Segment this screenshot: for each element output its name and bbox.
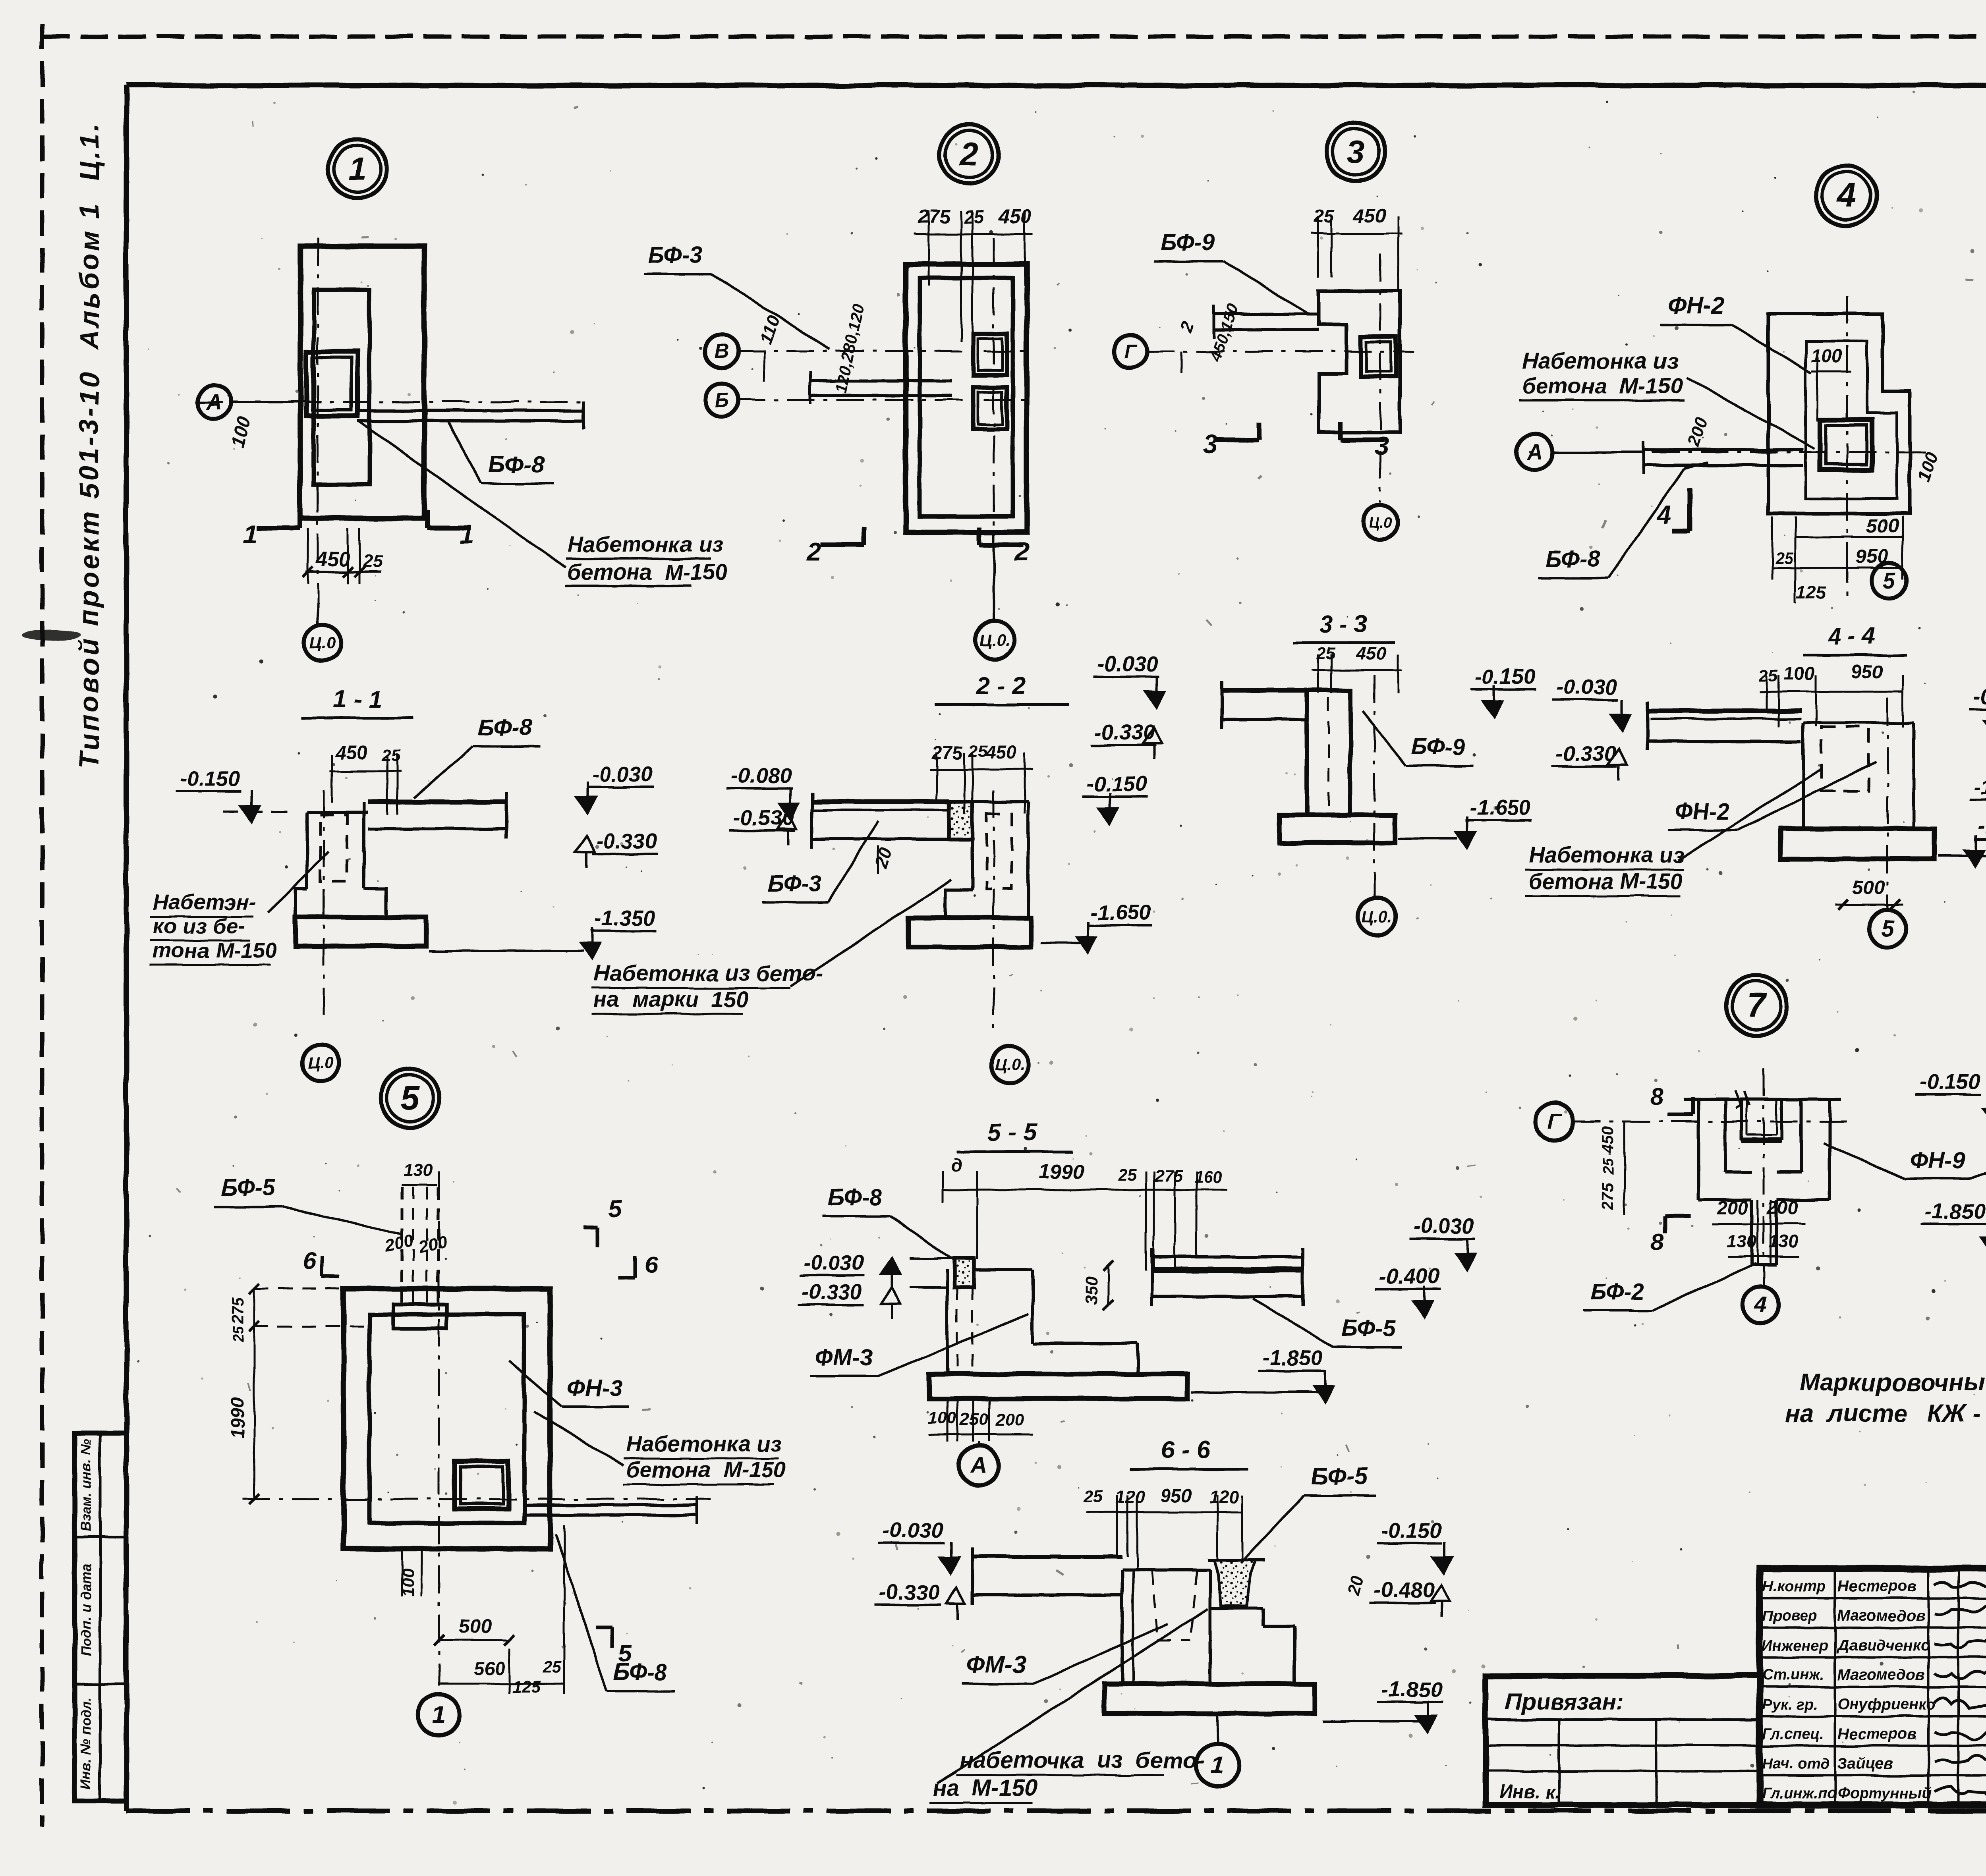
svg-text:3: 3 bbox=[1204, 430, 1218, 458]
svg-text:Ц.0.: Ц.0. bbox=[980, 631, 1010, 649]
section 4-4 beam bbox=[1648, 708, 1801, 713]
svg-text:БФ-8: БФ-8 bbox=[1546, 546, 1600, 572]
svg-text:3: 3 bbox=[1374, 432, 1389, 460]
detail 4 axis vertical bbox=[1846, 296, 1848, 596]
section 6-6 pier dashed cup bbox=[1152, 1571, 1158, 1640]
svg-text:Магомедов: Магомедов bbox=[1837, 1607, 1925, 1624]
svg-text:25: 25 bbox=[362, 551, 383, 571]
svg-text:2: 2 bbox=[1014, 537, 1029, 566]
section 6-6 pier bbox=[1121, 1570, 1124, 1684]
title block signature grid bbox=[1760, 1597, 1986, 1599]
detail 7 left dims bbox=[1624, 1121, 1626, 1215]
section 6-6 footing bbox=[1104, 1684, 1315, 1714]
detail 2 axis vertical bbox=[993, 238, 995, 622]
detail 7 axis vertical bbox=[1763, 1068, 1765, 1287]
section 2-2 wall bbox=[971, 802, 974, 890]
axis bubble Ts0 section 3-3 bbox=[1358, 898, 1396, 935]
detail 2 axis B row bbox=[738, 399, 1033, 401]
svg-text:200: 200 bbox=[383, 1231, 415, 1256]
svg-text:Подп. и дата: Подп. и дата bbox=[78, 1564, 94, 1656]
svg-text:на М-150: на М-150 bbox=[933, 1775, 1037, 1801]
svg-text:БФ-5: БФ-5 bbox=[221, 1175, 276, 1200]
svg-text:1: 1 bbox=[348, 151, 367, 187]
svg-text:-1.650: -1.650 bbox=[1978, 814, 1986, 838]
svg-text:БФ-8: БФ-8 bbox=[828, 1185, 882, 1210]
detail 2 bubble bbox=[940, 125, 999, 183]
detail 3 outline bbox=[1319, 291, 1400, 432]
svg-text:120: 120 bbox=[1115, 1487, 1145, 1507]
svg-text:25: 25 bbox=[1600, 1158, 1617, 1175]
svg-text:160: 160 bbox=[1194, 1168, 1223, 1187]
svg-text:20: 20 bbox=[1345, 1573, 1368, 1597]
section cut T1 bbox=[427, 526, 471, 531]
svg-text:на марки 150: на марки 150 bbox=[594, 986, 749, 1011]
detail 2 beam BF-3 bbox=[810, 379, 951, 382]
svg-text:450: 450 bbox=[1355, 643, 1387, 664]
svg-text:-0.030: -0.030 bbox=[1556, 675, 1617, 699]
svg-text:-1.850: -1.850 bbox=[1924, 1199, 1985, 1223]
detail 5 axis vertical bbox=[438, 1172, 440, 1686]
svg-text:Инженер: Инженер bbox=[1762, 1637, 1828, 1654]
svg-text:В: В bbox=[715, 340, 729, 362]
svg-text:Набетонка из бето-: Набетонка из бето- bbox=[594, 961, 823, 986]
svg-text:Набетонка из: Набетонка из bbox=[567, 532, 723, 557]
svg-text:Инв. к.: Инв. к. bbox=[1499, 1781, 1561, 1802]
svg-text:100: 100 bbox=[1811, 345, 1842, 366]
svg-text:Ц.0.: Ц.0. bbox=[995, 1056, 1024, 1074]
svg-text:БФ-9: БФ-9 bbox=[1411, 734, 1465, 760]
axis bubble A section 5-5 bbox=[959, 1446, 999, 1485]
section 5-5 pier dashed bbox=[956, 1287, 958, 1372]
detail 5 left dims bbox=[253, 1289, 255, 1499]
axis bubble Ts0 detail 1 bbox=[317, 604, 319, 625]
svg-text:Набетонка из: Набетонка из bbox=[1522, 348, 1678, 373]
sheet outer dashed border top bbox=[42, 35, 1986, 39]
svg-text:Гл.спец.: Гл.спец. bbox=[1762, 1726, 1824, 1743]
svg-text:5 - 5: 5 - 5 bbox=[987, 1119, 1037, 1146]
svg-text:500: 500 bbox=[459, 1616, 491, 1637]
axis bubble B bbox=[705, 383, 738, 417]
svg-text:4 - 4: 4 - 4 bbox=[1828, 623, 1876, 649]
svg-text:275: 275 bbox=[1154, 1167, 1183, 1186]
detail 4 inner outline bbox=[1806, 341, 1897, 499]
axis bubble V bbox=[705, 334, 738, 368]
detail 4 outline bbox=[1768, 314, 1910, 513]
detail 1 outline bbox=[300, 246, 424, 518]
svg-text:125: 125 bbox=[512, 1677, 541, 1697]
axis bubble Ts0 detail 2 bbox=[993, 534, 995, 620]
axis bubble Ts0 detail 3 bbox=[1363, 505, 1398, 540]
section 1-1 beam bbox=[368, 799, 506, 804]
axis bubble G detail 7 bbox=[1535, 1102, 1573, 1141]
section 3-3 pier bbox=[1307, 690, 1350, 815]
svg-text:275: 275 bbox=[1599, 1182, 1617, 1210]
section 3-3 footing bbox=[1280, 815, 1395, 843]
title block annex bbox=[1486, 1676, 1760, 1805]
detail 7 outline bbox=[1697, 1099, 1700, 1200]
detail 5 inner 1 bbox=[369, 1314, 524, 1523]
svg-text:100: 100 bbox=[1913, 450, 1942, 484]
svg-text:4: 4 bbox=[1754, 1292, 1767, 1317]
margin stamp table bbox=[75, 1434, 126, 1801]
svg-text:-1.650: -1.650 bbox=[1090, 901, 1151, 924]
detail 4 axis horizontal bbox=[1553, 452, 1934, 454]
grid bubble 5 section 4-4 bbox=[1869, 910, 1906, 947]
section 4-4 footing bbox=[1781, 829, 1934, 859]
svg-text:БФ-8: БФ-8 bbox=[613, 1659, 668, 1685]
svg-text:ФМ-3: ФМ-3 bbox=[966, 1651, 1026, 1678]
svg-text:200: 200 bbox=[1717, 1197, 1748, 1218]
svg-text:Набетонка из: Набетонка из bbox=[1528, 842, 1685, 867]
svg-text:-0.030: -0.030 bbox=[803, 1251, 864, 1275]
svg-text:набеточка из бето-: набеточка из бето- bbox=[959, 1747, 1205, 1773]
svg-text:-0.150: -0.150 bbox=[1973, 685, 1986, 708]
svg-text:450: 450 bbox=[1353, 205, 1386, 227]
section cut 8 bottom bbox=[1665, 1214, 1690, 1218]
section 3-3 axis bbox=[1374, 675, 1376, 897]
svg-text:1: 1 bbox=[432, 1701, 446, 1729]
detail 4 dims bottom bbox=[1795, 536, 1903, 538]
svg-text:Инв. № подл.: Инв. № подл. bbox=[78, 1697, 94, 1790]
svg-text:950: 950 bbox=[1161, 1485, 1192, 1506]
svg-text:2: 2 bbox=[1177, 319, 1198, 335]
detail 5 column dashed bbox=[401, 1187, 404, 1307]
section 1-1 wall dashed pocket bbox=[320, 815, 347, 882]
svg-text:-1.350: -1.350 bbox=[595, 906, 655, 930]
section 2-2 beam bbox=[812, 799, 949, 804]
svg-text:Ц.0.: Ц.0. bbox=[1362, 907, 1392, 926]
svg-text:1: 1 bbox=[1211, 1752, 1224, 1779]
svg-text:-0.030: -0.030 bbox=[1097, 652, 1158, 676]
svg-text:450: 450 bbox=[985, 741, 1016, 762]
svg-text:200: 200 bbox=[416, 1232, 448, 1257]
svg-text:25: 25 bbox=[1118, 1166, 1137, 1184]
svg-text:БФ-8: БФ-8 bbox=[478, 715, 533, 741]
svg-text:Магомедов: Магомедов bbox=[1837, 1666, 1925, 1683]
section 4-4 axis bbox=[1887, 698, 1889, 909]
svg-text:Взам. инв. №: Взам. инв. № bbox=[78, 1439, 94, 1531]
section 5-5 dim 350 bbox=[1107, 1266, 1109, 1305]
section 2-2 grout pocket bbox=[949, 802, 972, 839]
svg-text:-0.330: -0.330 bbox=[1555, 742, 1616, 766]
svg-text:200: 200 bbox=[995, 1411, 1024, 1430]
svg-text:5: 5 bbox=[1881, 915, 1894, 941]
svg-text:ФМ-3: ФМ-3 bbox=[815, 1345, 873, 1370]
svg-text:450: 450 bbox=[999, 206, 1032, 228]
svg-text:275: 275 bbox=[918, 206, 951, 228]
detail 2 inner outline bbox=[920, 278, 1013, 516]
svg-text:1: 1 bbox=[243, 519, 258, 549]
svg-text:120: 120 bbox=[1209, 1487, 1239, 1507]
grid bubble 4 detail 7 bbox=[1743, 1287, 1779, 1323]
section 2-2 axis bbox=[993, 790, 995, 1033]
svg-text:7: 7 bbox=[1747, 986, 1768, 1025]
svg-text:6: 6 bbox=[645, 1251, 658, 1278]
svg-text:Ц.0: Ц.0 bbox=[1368, 514, 1392, 531]
detail 7 inner verticals bbox=[1723, 1099, 1727, 1172]
svg-text:Нестеров: Нестеров bbox=[1837, 1578, 1916, 1595]
svg-text:8: 8 bbox=[1651, 1229, 1664, 1255]
section 2-2 steps bbox=[945, 890, 972, 918]
section 1-1 axis bbox=[323, 790, 325, 1017]
svg-text:А: А bbox=[1526, 440, 1542, 464]
svg-text:Маркировочный план . план: Маркировочный план . план фундаментов см… bbox=[1799, 1369, 1986, 1396]
detail 7 axis horizontal bbox=[1573, 1121, 1847, 1123]
grid bubble 1 section 6-6 bbox=[1196, 1744, 1239, 1787]
svg-text:тона М-150: тона М-150 bbox=[153, 939, 276, 963]
svg-text:5: 5 bbox=[400, 1079, 420, 1117]
svg-text:25: 25 bbox=[1758, 666, 1778, 685]
svg-text:450: 450 bbox=[335, 742, 368, 764]
svg-text:Ц.0: Ц.0 bbox=[310, 633, 335, 652]
section 3-3 beam bbox=[1222, 688, 1307, 693]
svg-text:100: 100 bbox=[1784, 663, 1815, 684]
svg-text:25: 25 bbox=[1083, 1487, 1103, 1506]
svg-text:бетона М-150: бетона М-150 bbox=[1528, 869, 1683, 894]
drawing frame bbox=[126, 83, 1986, 88]
detail 4 bubble bbox=[1816, 165, 1876, 226]
svg-text:450,150: 450,150 bbox=[1206, 302, 1243, 364]
detail 3 beam BF-9 bbox=[1213, 312, 1319, 315]
svg-text:5: 5 bbox=[1883, 568, 1895, 593]
detail 7 break mark bbox=[1735, 1090, 1741, 1108]
svg-text:А: А bbox=[970, 1452, 987, 1478]
svg-text:125: 125 bbox=[1796, 583, 1826, 603]
section 5-5 beam right bbox=[1152, 1255, 1303, 1258]
svg-text:2: 2 bbox=[806, 537, 821, 566]
svg-text:Набетэн-: Набетэн- bbox=[153, 890, 256, 914]
svg-text:-1.850: -1.850 bbox=[1262, 1346, 1323, 1370]
svg-text:100: 100 bbox=[226, 414, 255, 450]
section 2-2 wall dashed bbox=[987, 814, 1012, 889]
section 5-5 pier bbox=[946, 1270, 949, 1374]
svg-text:200: 200 bbox=[1683, 415, 1712, 450]
detail 2 axis V row bbox=[738, 350, 1033, 352]
svg-text:2 - 2: 2 - 2 bbox=[976, 672, 1026, 700]
detail 1 bubble bbox=[328, 139, 387, 198]
svg-text:Г: Г bbox=[1547, 1109, 1562, 1134]
svg-text:Онуфриенко: Онуфриенко bbox=[1837, 1696, 1936, 1713]
svg-text:БФ-3: БФ-3 bbox=[767, 871, 821, 897]
detail 2 column lower bbox=[973, 387, 1007, 429]
svg-text:3 - 3: 3 - 3 bbox=[1319, 611, 1367, 637]
svg-text:25: 25 bbox=[968, 742, 988, 761]
detail 5 dim 500 bbox=[439, 1639, 509, 1641]
svg-text:Ст.инж.: Ст.инж. bbox=[1762, 1667, 1824, 1683]
svg-text:130: 130 bbox=[1727, 1231, 1756, 1252]
svg-text:бетона М-150: бетона М-150 bbox=[626, 1457, 786, 1482]
detail 1 axis vertical bbox=[317, 238, 319, 604]
svg-text:25: 25 bbox=[1775, 549, 1794, 567]
svg-text:бетона М-150: бетона М-150 bbox=[1522, 373, 1683, 398]
svg-text:350: 350 bbox=[1082, 1276, 1101, 1305]
detail 3 axis horizontal bbox=[1147, 351, 1414, 353]
svg-text:Зайцев: Зайцев bbox=[1837, 1755, 1893, 1772]
detail 5 beam right bbox=[524, 1504, 697, 1507]
svg-text:Г: Г bbox=[1124, 340, 1138, 363]
svg-text:на листе КЖ - 4.: на листе КЖ - 4. bbox=[1785, 1400, 1986, 1427]
svg-text:-0.080: -0.080 bbox=[731, 764, 792, 788]
svg-text:1990: 1990 bbox=[1039, 1160, 1084, 1183]
svg-text:1990: 1990 bbox=[227, 1397, 248, 1439]
grid bubble 1 detail 5 bbox=[418, 1694, 460, 1735]
section 4-4 pier dashed bbox=[1821, 727, 1869, 791]
svg-text:ФН-3: ФН-3 bbox=[568, 1375, 623, 1401]
svg-text:130: 130 bbox=[1768, 1231, 1798, 1252]
svg-text:ко из бе-: ко из бе- bbox=[153, 914, 245, 938]
section 6-6 right block bbox=[1210, 1607, 1263, 1610]
svg-text:бетона М-150: бетона М-150 bbox=[567, 560, 728, 585]
svg-text:100: 100 bbox=[928, 1409, 956, 1428]
section 4-4 pier bbox=[1802, 723, 1805, 829]
axis bubble A detail 4 bbox=[1517, 434, 1552, 470]
svg-text:-0.330: -0.330 bbox=[802, 1280, 862, 1304]
svg-text:-0.030: -0.030 bbox=[1413, 1214, 1474, 1238]
detail 7 U channel bbox=[1740, 1099, 1743, 1141]
svg-text:25: 25 bbox=[1316, 644, 1336, 663]
svg-text:БФ-2: БФ-2 bbox=[1590, 1279, 1644, 1305]
svg-text:Нестеров: Нестеров bbox=[1837, 1725, 1916, 1743]
section 6-6 funnel BF-5 bbox=[1214, 1560, 1256, 1606]
svg-text:450: 450 bbox=[315, 548, 350, 570]
svg-text:БФ-5: БФ-5 bbox=[1341, 1316, 1396, 1341]
title block annex rows bbox=[1486, 1718, 1760, 1721]
svg-text:-0.150: -0.150 bbox=[1086, 772, 1147, 796]
section cut T2 bbox=[979, 542, 1023, 547]
axis bubble Ts0 section 1-1 bbox=[303, 1044, 339, 1081]
svg-text:ФН-9: ФН-9 bbox=[1910, 1148, 1965, 1173]
svg-text:1 - 1: 1 - 1 bbox=[333, 686, 382, 713]
svg-text:БФ-5: БФ-5 bbox=[1311, 1463, 1368, 1490]
svg-text:-0.150: -0.150 bbox=[1474, 665, 1535, 689]
svg-text:6 - 6: 6 - 6 bbox=[1161, 1436, 1211, 1464]
grid bubble 5 detail 4 bbox=[1872, 563, 1907, 598]
svg-text:Набетонка из: Набетонка из bbox=[626, 1431, 782, 1456]
detail 1 column FM bbox=[306, 351, 357, 416]
svg-text:Привязан:: Привязан: bbox=[1505, 1689, 1623, 1715]
section 5-5 beam end box bbox=[954, 1258, 974, 1287]
svg-text:500: 500 bbox=[1853, 877, 1885, 899]
section 6-6 beam bbox=[972, 1555, 1122, 1559]
svg-text:-1.650: -1.650 bbox=[1973, 775, 1986, 799]
svg-text:3: 3 bbox=[1347, 134, 1365, 170]
svg-text:ФН-2: ФН-2 bbox=[1667, 292, 1725, 319]
svg-text:200: 200 bbox=[1767, 1197, 1798, 1218]
svg-text:А: А bbox=[206, 390, 222, 414]
svg-text:450: 450 bbox=[1599, 1126, 1617, 1154]
svg-text:Давидченко: Давидченко bbox=[1836, 1637, 1930, 1654]
svg-text:Нач. отд: Нач. отд bbox=[1762, 1755, 1830, 1772]
svg-text:Фортунный: Фортунный bbox=[1837, 1785, 1932, 1802]
detail 3 column bbox=[1361, 337, 1396, 376]
margin smudge bbox=[22, 630, 81, 641]
section 1-1 wall bbox=[305, 812, 308, 889]
svg-text:Гл.инж.по: Гл.инж.по bbox=[1762, 1785, 1836, 1802]
svg-text:6: 6 bbox=[302, 1247, 316, 1274]
svg-text:25: 25 bbox=[230, 1326, 246, 1343]
svg-text:25: 25 bbox=[543, 1658, 562, 1676]
svg-text:Б: Б bbox=[715, 388, 729, 411]
svg-text:Типовой проект 501-3-10 Альбо: Типовой проект 501-3-10 Альбом 1 Ц.1. bbox=[74, 121, 104, 769]
detail 7 column bbox=[1750, 1200, 1753, 1265]
title block outer bbox=[1760, 1569, 1986, 1805]
detail 5 small rect top bbox=[393, 1305, 447, 1328]
sheet outer dashed border left bbox=[40, 24, 44, 1827]
section 1-1 steps bbox=[296, 889, 307, 917]
svg-text:-0.150: -0.150 bbox=[1919, 1070, 1980, 1094]
section cut 5 bottom bbox=[611, 1627, 614, 1648]
svg-text:-0.330: -0.330 bbox=[596, 829, 657, 853]
detail 7 outline top bbox=[1684, 1098, 1841, 1101]
svg-text:Ц.0: Ц.0 bbox=[308, 1054, 334, 1072]
svg-text:Рук. гр.: Рук. гр. bbox=[1762, 1697, 1818, 1713]
svg-text:ФН-2: ФН-2 bbox=[1675, 798, 1730, 824]
svg-text:2: 2 bbox=[959, 136, 978, 172]
detail 5 axis horizontal bbox=[242, 1498, 711, 1500]
svg-text:275: 275 bbox=[228, 1297, 247, 1325]
detail 2 outline bbox=[906, 264, 1027, 532]
svg-text:8: 8 bbox=[1651, 1083, 1664, 1109]
detail 1 wall inner outline bbox=[314, 290, 369, 484]
svg-text:-1.850: -1.850 bbox=[1381, 1677, 1442, 1701]
svg-text:25: 25 bbox=[381, 746, 401, 765]
section cut T3 detail 3 bbox=[1341, 438, 1384, 442]
svg-text:БФ-3: БФ-3 bbox=[648, 242, 702, 268]
detail 5 column square bbox=[455, 1461, 508, 1509]
svg-text:д: д bbox=[950, 1154, 962, 1175]
detail 5 bubble bbox=[381, 1069, 439, 1127]
svg-text:БФ-9: БФ-9 bbox=[1161, 230, 1215, 255]
svg-text:20: 20 bbox=[871, 845, 896, 871]
detail 5 outline bbox=[344, 1289, 550, 1549]
svg-text:130: 130 bbox=[403, 1160, 433, 1180]
axis bubble A bbox=[198, 385, 231, 419]
svg-text:-0.150: -0.150 bbox=[180, 766, 240, 790]
detail 2 column upper bbox=[973, 334, 1007, 375]
svg-text:1: 1 bbox=[460, 519, 474, 549]
svg-text:-0.480: -0.480 bbox=[1374, 1578, 1434, 1602]
svg-text:Провер: Провер bbox=[1762, 1608, 1818, 1624]
svg-text:-0.030: -0.030 bbox=[592, 762, 653, 786]
detail 1 dim line 450 25 bbox=[306, 571, 381, 573]
svg-text:4: 4 bbox=[1836, 176, 1856, 214]
detail 7 bubble bbox=[1726, 975, 1787, 1036]
svg-text:Н.контр: Н.контр bbox=[1762, 1578, 1826, 1595]
svg-text:-0.330: -0.330 bbox=[879, 1581, 939, 1604]
svg-text:-0.030: -0.030 bbox=[883, 1519, 943, 1542]
svg-text:5: 5 bbox=[608, 1196, 622, 1222]
svg-text:25: 25 bbox=[964, 207, 984, 227]
svg-text:500: 500 bbox=[1866, 515, 1899, 537]
section 5-5 footing bbox=[929, 1374, 1188, 1399]
detail 4 column bbox=[1820, 420, 1872, 470]
detail 3 bubble bbox=[1326, 123, 1385, 181]
svg-text:-1.650: -1.650 bbox=[1470, 796, 1530, 820]
detail 1 beam BF-8 bbox=[357, 409, 584, 412]
axis bubble Ts0 section 2-2 bbox=[991, 1046, 1028, 1083]
svg-text:БФ-8: БФ-8 bbox=[488, 451, 545, 478]
detail 1 axis horizontal bbox=[195, 401, 588, 403]
svg-text:560: 560 bbox=[474, 1658, 505, 1679]
detail 3 axis vertical bbox=[1379, 254, 1381, 502]
detail 4 beam BF-8 bbox=[1644, 448, 1803, 452]
svg-text:950: 950 bbox=[1851, 661, 1882, 682]
axis bubble G detail 3 bbox=[1114, 335, 1147, 368]
